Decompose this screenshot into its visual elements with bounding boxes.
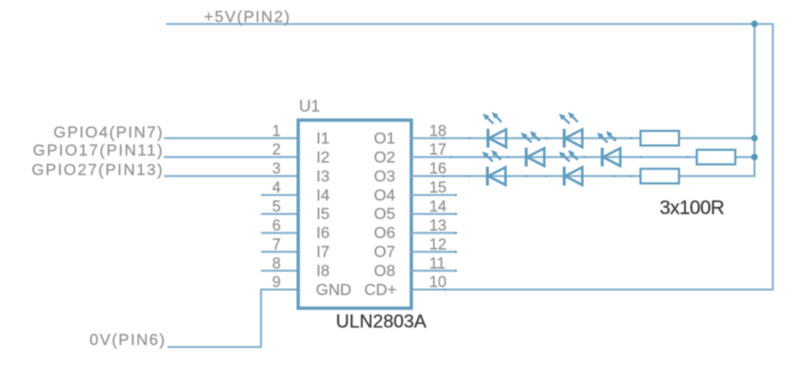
wire GPIO17(PIN11) to pin 2 [164,156,298,158]
LED D3 [521,131,544,167]
svg-text:8: 8 [272,255,281,272]
wire O2 net [411,156,754,158]
wire GPIO4(PIN7) to pin 1 [164,137,298,139]
wire O1 net [411,137,754,139]
svg-text:O8: O8 [374,263,395,280]
pin stub 7 [261,251,298,253]
wire +5V top rail, right vertical, pin10 CD+ wire [166,24,773,290]
svg-text:O2: O2 [374,149,395,166]
LED D6 [559,150,582,186]
svg-text:3: 3 [272,161,281,178]
LED D5 [482,150,505,186]
svg-text:I4: I4 [316,187,329,204]
wire joint dots O2 net [450,156,689,158]
wire O3 net and riser to +5V [411,24,754,176]
pin stub 14 [411,213,456,215]
pin stub 15 [411,194,456,196]
pin stub 11 [411,270,456,272]
svg-text:+5V(PIN2): +5V(PIN2) [204,9,291,26]
svg-text:I7: I7 [316,244,329,261]
IC U1 body [298,120,411,308]
svg-text:CD+: CD+ [364,282,396,299]
svg-text:O4: O4 [374,187,395,204]
svg-text:GPIO27(PIN13): GPIO27(PIN13) [32,162,164,179]
svg-text:I3: I3 [316,168,329,185]
svg-text:2: 2 [272,142,281,159]
svg-text:GPIO17(PIN11): GPIO17(PIN11) [33,143,164,160]
resistor R2 [697,150,736,165]
junction dot +5V rail [751,21,758,28]
svg-text:I1: I1 [316,131,329,148]
svg-text:O5: O5 [374,206,395,223]
svg-text:I5: I5 [316,206,329,223]
pin stub 8 [261,270,298,272]
junction dot O1 net [751,135,758,142]
LED D1 [483,112,506,148]
wire joint dot CD+ net [444,289,446,291]
wire joint dots O1 net [443,137,633,139]
svg-text:9: 9 [272,274,281,291]
svg-text:GPIO4(PIN7): GPIO4(PIN7) [53,125,164,142]
svg-text:0V(PIN6): 0V(PIN6) [89,332,166,349]
svg-text:O7: O7 [374,244,395,261]
svg-text:7: 7 [272,236,281,253]
svg-text:O1: O1 [374,131,395,148]
svg-text:I8: I8 [316,263,329,280]
LED D4 [597,131,620,167]
svg-text:O6: O6 [374,225,395,242]
svg-text:5: 5 [272,199,281,216]
pin stub 4 [261,194,298,196]
svg-text:1: 1 [272,123,281,140]
wire GPIO27(PIN13) to pin 3 [164,175,298,177]
pin stub 6 [261,232,298,234]
svg-text:U1: U1 [299,98,320,116]
LED D2 [559,112,582,148]
resistor R1 [641,131,680,146]
svg-text:I2: I2 [316,149,329,166]
resistor R3 [641,169,680,184]
svg-text:GND: GND [316,282,352,299]
svg-text:4: 4 [272,180,281,197]
wire 0V to pin9 GND [168,290,299,347]
svg-text:3x100R: 3x100R [660,197,725,219]
svg-text:ULN2803A: ULN2803A [336,311,427,332]
pin stub 12 [411,251,456,253]
svg-text:O3: O3 [374,168,395,185]
pin stub 13 [411,232,456,234]
svg-text:I6: I6 [316,225,329,242]
wire joint dots O3 net [442,175,632,177]
pin stub 5 [261,213,298,215]
junction dot O2 net [751,154,758,161]
svg-text:6: 6 [272,218,281,235]
